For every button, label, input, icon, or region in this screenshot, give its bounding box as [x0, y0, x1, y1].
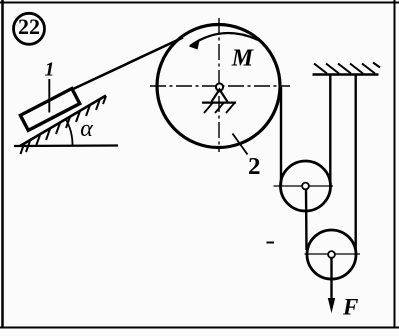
svg-text:F: F: [342, 295, 358, 320]
svg-text:22: 22: [18, 14, 40, 39]
svg-text:α: α: [80, 116, 93, 142]
svg-text:1: 1: [45, 59, 55, 81]
svg-text:2: 2: [248, 154, 261, 180]
svg-text:M: M: [231, 46, 255, 72]
